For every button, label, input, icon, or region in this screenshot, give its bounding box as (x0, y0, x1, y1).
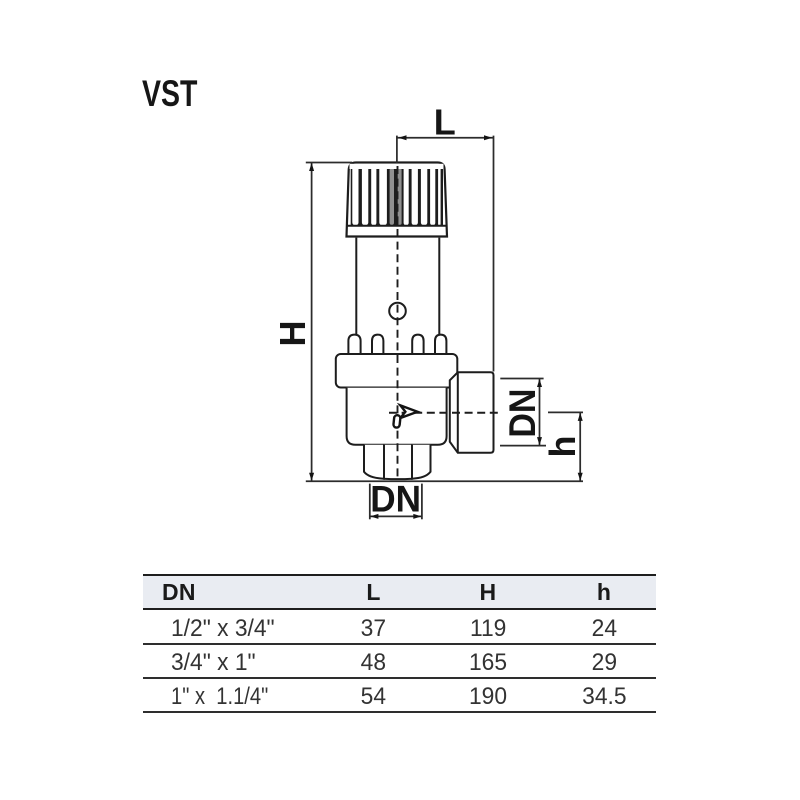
svg-text:DN: DN (501, 389, 543, 438)
svg-text:DN: DN (370, 478, 421, 520)
svg-text:VST: VST (142, 72, 197, 113)
svg-text:H: H (272, 321, 313, 347)
svg-text:h: h (542, 436, 583, 458)
svg-text:L: L (434, 102, 456, 143)
